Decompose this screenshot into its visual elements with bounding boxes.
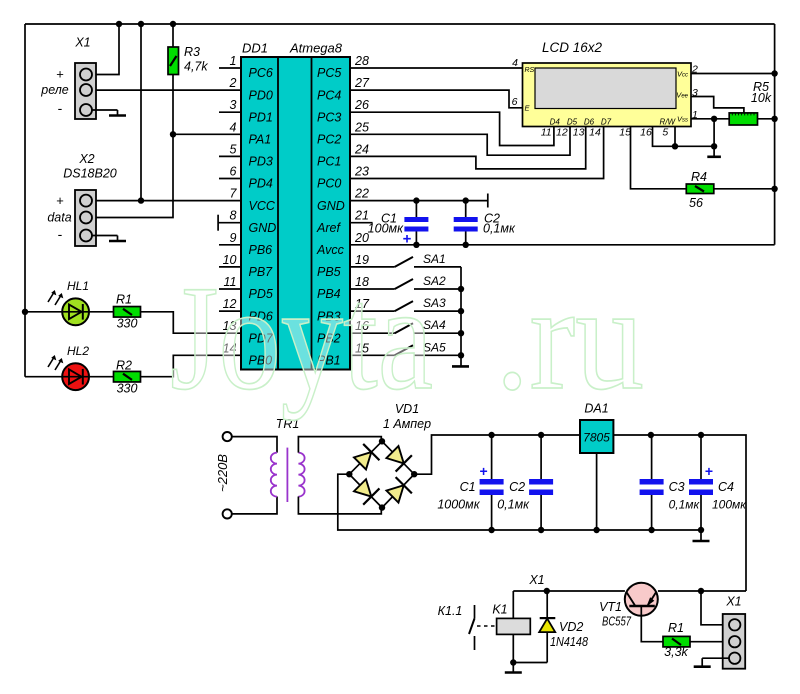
wire DD1 pin10 stub	[219, 266, 241, 268]
svg-text:16: 16	[640, 127, 652, 139]
wire R2 to DD1 pin14 PB0	[140, 355, 241, 376]
junction bridge bottom	[379, 504, 385, 510]
svg-text:5: 5	[662, 127, 668, 139]
wire DD1 pin21 Aref stub	[350, 222, 373, 224]
svg-text:13: 13	[573, 127, 585, 139]
svg-text:R2: R2	[116, 359, 132, 373]
junction bridge left	[346, 471, 352, 477]
diode VD2 1N4148	[546, 632, 548, 662]
wire left bus vertical (top rail to HL2)	[24, 24, 26, 377]
junction top rail C1p	[488, 432, 494, 438]
capacitor C4 100мк	[700, 435, 702, 479]
op-amp U1 microcontroller DD1 ATmega8 body	[241, 57, 350, 370]
HL1 emission arrows	[48, 292, 55, 303]
wire X2 data up to node	[92, 134, 173, 217]
junction Avcc wire / C1	[413, 242, 419, 248]
wire DD1 pin1 stub	[219, 67, 241, 69]
wire LCD pin15 to R4	[631, 127, 687, 189]
svg-text:HL2: HL2	[67, 344, 89, 358]
svg-text:4: 4	[512, 57, 518, 69]
ground X2	[117, 236, 119, 242]
junction SA bus	[458, 286, 464, 292]
svg-text:25: 25	[354, 120, 369, 134]
wire X1 pin2 to DD1 pin2 PD0	[92, 89, 241, 91]
svg-text:Aref: Aref	[316, 221, 341, 235]
junction top rail / X1 pin1	[116, 21, 122, 27]
svg-text:6: 6	[512, 96, 518, 108]
ground power rail	[700, 530, 702, 541]
transformer TR1 primary wire	[232, 437, 277, 453]
svg-text:27: 27	[354, 76, 370, 90]
svg-text:-: -	[58, 100, 63, 116]
svg-text:PC1: PC1	[317, 155, 341, 169]
svg-text:330: 330	[117, 317, 138, 331]
svg-text:3,3k: 3,3k	[664, 645, 688, 659]
svg-text:-: -	[58, 226, 63, 242]
wire R4 to right bus	[714, 188, 775, 190]
svg-text:RS: RS	[525, 67, 535, 74]
ground X1 output	[701, 658, 703, 667]
capacitor C1 1000мк	[491, 435, 493, 479]
diode VD1a	[352, 444, 380, 472]
svg-text:330: 330	[117, 382, 138, 396]
junction top rail / R3	[170, 21, 176, 27]
svg-text:BC557: BC557	[602, 614, 632, 629]
svg-text:C3: C3	[669, 480, 685, 494]
svg-text:+: +	[56, 67, 64, 82]
svg-text:100мк: 100мк	[368, 222, 404, 236]
junction Avcc wire / C2	[463, 242, 469, 248]
ground X1	[117, 110, 119, 116]
svg-text:PA1: PA1	[249, 133, 272, 147]
wire DD1 pin24 PC1 to LCD D6 pin13	[350, 127, 586, 169]
junction Vss wire	[711, 116, 717, 122]
svg-text:DS18B20: DS18B20	[63, 167, 117, 181]
HL2 emission arrows	[48, 357, 55, 368]
svg-text:R1: R1	[116, 293, 132, 307]
wire X2 plus to DD1 pin7 VCC	[92, 200, 241, 202]
wire X1 pin1 feed	[701, 591, 729, 625]
svg-text:R4: R4	[691, 170, 707, 184]
junction X2 plus / VCC	[138, 197, 144, 203]
svg-text:+: +	[56, 193, 64, 208]
wire LCD Vcc pin2 to right bus	[691, 73, 775, 75]
svg-text:X1: X1	[528, 573, 544, 587]
svg-text:22: 22	[354, 187, 369, 201]
junction VD2 top	[544, 588, 550, 594]
svg-text:PC4: PC4	[317, 88, 341, 102]
svg-text:C2: C2	[509, 480, 525, 494]
svg-text:1000мк: 1000мк	[437, 498, 480, 512]
diode VD1b	[384, 444, 412, 472]
svg-text:PC0: PC0	[317, 177, 341, 191]
svg-text:реле: реле	[40, 83, 69, 97]
wire DD1 pin11 stub	[219, 288, 241, 290]
wire DD1 pin27 PC4 to LCD E pin6	[350, 90, 523, 108]
svg-text:D6: D6	[584, 118, 595, 127]
svg-text:PC3: PC3	[317, 110, 341, 124]
wire X1 pin3 to ground	[92, 109, 118, 111]
resistor R1 3.3k	[663, 636, 690, 647]
wire VT1 base to R1	[641, 606, 663, 642]
wire HL1 anode from left bus	[25, 311, 62, 313]
wire VD2 bottom link	[513, 662, 547, 664]
svg-text:21: 21	[354, 209, 369, 223]
switch SA4	[350, 332, 395, 334]
relay K1 coil	[497, 618, 531, 634]
wire power rail DA1 out	[613, 435, 746, 591]
ground K1	[512, 663, 514, 673]
wire R1 to X1 pin2	[690, 641, 729, 643]
wire relay K1 top lead	[512, 591, 514, 618]
svg-text:10k: 10k	[751, 91, 772, 105]
LED HL1 green	[62, 298, 89, 325]
wire Vss to LCD ground node	[713, 119, 715, 147]
svg-text:15: 15	[619, 127, 631, 139]
svg-text:8: 8	[230, 209, 237, 223]
wire DD1 pin3 stub	[219, 111, 241, 113]
svg-text:5: 5	[230, 142, 237, 156]
svg-text:2: 2	[229, 76, 237, 90]
wire DD1 pin8 GND stub with tick	[218, 222, 241, 224]
capacitor C1 plates	[404, 217, 428, 222]
diode VD1d	[384, 477, 412, 505]
svg-text:D7: D7	[601, 118, 612, 127]
svg-text:+: +	[705, 463, 713, 479]
svg-text:PD1: PD1	[249, 110, 273, 124]
wire X2 pin3 to ground	[92, 235, 118, 237]
svg-text:Atmega8: Atmega8	[289, 41, 343, 56]
capacitor C1 100mk leads	[415, 201, 417, 217]
diode VD1c	[352, 477, 380, 505]
wire DD1 pin26 PC3 to LCD D4 pin11	[350, 112, 554, 145]
junction left bus / HL1	[22, 309, 28, 315]
wire R3 bottom to data node	[172, 75, 174, 135]
svg-text:PD3: PD3	[249, 155, 273, 169]
svg-text:9: 9	[230, 231, 237, 245]
svg-text:R3: R3	[184, 45, 200, 59]
svg-text:R/W: R/W	[659, 118, 676, 127]
svg-text:+: +	[403, 231, 412, 248]
resistor R3 4.7k pull-up	[168, 47, 179, 75]
wire right +5V bus vertical	[774, 24, 776, 245]
svg-text:14: 14	[589, 127, 601, 139]
svg-text:VD2: VD2	[559, 620, 583, 634]
junction SA bus	[458, 352, 464, 358]
wire +V emitter rail	[513, 590, 625, 592]
svg-text:7805: 7805	[583, 431, 610, 445]
svg-text:PC5: PC5	[317, 66, 341, 80]
wire LCD Vee pin3 to R5 wiper	[691, 97, 744, 113]
junction top rail C4	[698, 432, 704, 438]
transistor VT1 BC557	[625, 583, 658, 616]
junction bottom rail C3	[648, 527, 654, 533]
switch SA1	[350, 266, 395, 268]
LCD 16x2 module	[523, 63, 692, 127]
junction GND wire / C2	[463, 197, 469, 203]
svg-text:R1: R1	[668, 621, 684, 635]
switch SA3	[350, 310, 395, 312]
resistor R1 330	[114, 307, 141, 318]
svg-text:6: 6	[230, 165, 237, 179]
svg-text:data: data	[47, 211, 71, 225]
svg-text:Joyta: Joyta	[170, 255, 433, 421]
junction SA bus	[458, 330, 464, 336]
wire LCD Vss pin1 to R5	[691, 118, 729, 120]
svg-text:VCC: VCC	[249, 199, 276, 213]
resistor R4 56	[686, 184, 714, 194]
svg-text:PC2: PC2	[317, 133, 341, 147]
wire DD1 pin20 Avcc to right bus	[350, 244, 775, 246]
wire R3 top to rail	[172, 24, 174, 47]
wire top rail down to X2 plus	[140, 24, 142, 201]
wire LCD pin16 and pin5 to ground node	[653, 127, 715, 147]
switch SA2	[350, 288, 395, 290]
potentiometer R5 10k	[729, 113, 757, 125]
wire node to DD1 pin4 PA1	[173, 133, 241, 135]
wire DD1 pin25 PC2 to LCD D5 pin12	[350, 127, 570, 156]
wire DD1 pin12 stub	[219, 310, 241, 312]
transformer TR1 primary winding	[271, 453, 277, 497]
svg-text:0,1мк: 0,1мк	[669, 498, 701, 512]
capacitor C2 0,1мк	[540, 435, 542, 479]
capacitor C3 0,1мк	[651, 435, 653, 479]
svg-text:GND: GND	[249, 221, 277, 235]
junction right bus / R4	[771, 186, 777, 192]
junction LCD ground node	[711, 143, 717, 149]
wire HL2 cathode to R2	[89, 376, 114, 378]
wire DA1 ground lead	[596, 453, 598, 530]
wire X1 pin3 to ground	[702, 657, 729, 659]
ground LCD	[713, 146, 715, 157]
wire DD1 pin28 PC5 to LCD RS pin4	[350, 67, 523, 69]
junction X1 output pin1	[698, 588, 704, 594]
svg-text:X1: X1	[725, 595, 741, 609]
LED HL2 red	[62, 363, 89, 390]
junction right bus / LCD Vcc	[771, 70, 777, 76]
svg-text:0,1мк: 0,1мк	[483, 222, 516, 236]
wire bridge minus to bottom rail	[338, 474, 701, 530]
junction K1 / VD2 bottom	[510, 659, 516, 665]
svg-text:28: 28	[354, 54, 369, 68]
svg-text:4,7k: 4,7k	[184, 60, 208, 74]
svg-text:4: 4	[230, 120, 237, 134]
wire bridge plus to top power rail	[414, 435, 580, 474]
junction SA bus	[458, 308, 464, 314]
svg-text:PD0: PD0	[249, 88, 273, 102]
svg-text:0,1мк: 0,1мк	[497, 498, 530, 512]
junction bridge right	[411, 471, 417, 477]
junction GND wire / C1	[413, 197, 419, 203]
svg-text:26: 26	[354, 98, 369, 112]
svg-text:3: 3	[230, 98, 237, 112]
connector X1 relay output	[75, 63, 96, 119]
transformer TR1 secondary wires	[298, 437, 381, 453]
junction bottom rail C4	[698, 527, 704, 533]
svg-text:.ru: .ru	[495, 255, 644, 421]
junction bottom rail C2p	[538, 527, 544, 533]
wire DD1 pin22 GND to C1 C2 with end tick	[350, 200, 488, 202]
svg-text:23: 23	[354, 165, 369, 179]
junction top rail C2p	[538, 432, 544, 438]
transformer TR1 core	[286, 448, 288, 502]
capacitor C2 0.1mk leads	[465, 201, 467, 217]
transformer TR1 secondary winding	[298, 453, 304, 497]
svg-text:1: 1	[230, 54, 237, 68]
wire HL2 anode from left bus	[25, 376, 62, 378]
wire HL1 cathode to R1	[89, 311, 114, 313]
diode bridge VD1 diamond	[349, 441, 414, 507]
connector mains input bottom	[223, 509, 232, 518]
junction right bus / R5	[771, 116, 777, 122]
junction bottom rail DA1 gnd	[593, 527, 599, 533]
svg-text:LCD 16x2: LCD 16x2	[542, 40, 603, 55]
wire SA common bus	[460, 267, 462, 367]
junction top rail / X2 plus	[138, 21, 144, 27]
connector X1 output	[723, 614, 746, 669]
wire DD1 pin23 PC0 to LCD D7 pin14	[350, 127, 604, 179]
junction R3 / data / PA1	[170, 131, 176, 137]
svg-text:PC6: PC6	[249, 66, 273, 80]
wire relay K1 bottom lead	[512, 634, 514, 662]
svg-text:C1: C1	[460, 480, 476, 494]
svg-text:D5: D5	[567, 118, 578, 127]
connector X2 DS18B20	[75, 190, 96, 246]
svg-text:PD4: PD4	[249, 177, 273, 191]
junction top rail C3	[648, 432, 654, 438]
svg-text:12: 12	[556, 127, 568, 139]
svg-text:1N4148: 1N4148	[550, 634, 589, 649]
ground SA bus	[452, 365, 469, 368]
svg-text:GND: GND	[317, 199, 345, 213]
svg-text:11: 11	[541, 127, 552, 139]
svg-text:X1: X1	[74, 36, 90, 50]
svg-text:K1: K1	[492, 603, 507, 617]
resistor R2 330	[114, 371, 141, 382]
wire +5V top rail	[25, 23, 775, 25]
connector mains input top	[223, 432, 232, 441]
wire R1 to DD1 pin13 PD7	[140, 312, 241, 333]
svg-text:HL1: HL1	[67, 279, 89, 293]
switch SA5	[350, 354, 395, 356]
svg-text:56: 56	[689, 196, 703, 210]
svg-text:20: 20	[354, 231, 369, 245]
svg-text:DD1: DD1	[242, 41, 268, 56]
capacitor C2 plates	[454, 217, 478, 222]
svg-text:C4: C4	[718, 480, 734, 494]
svg-text:24: 24	[354, 142, 369, 156]
junction bottom rail C1p	[488, 527, 494, 533]
wire DD1 pin5 stub	[219, 155, 241, 157]
junction pin5 / ground wire	[672, 143, 678, 149]
svg-text:X2: X2	[78, 152, 94, 166]
wire DD1 pin9 stub	[219, 244, 241, 246]
wire DD1 pin6 stub	[219, 178, 241, 180]
svg-text:100мк: 100мк	[712, 498, 747, 512]
wire R5 right to bus	[758, 118, 775, 120]
svg-text:7: 7	[230, 187, 238, 201]
svg-text:VT1: VT1	[599, 600, 622, 614]
voltage regulator DA1 7805	[580, 420, 613, 453]
junction bridge top	[379, 438, 385, 444]
svg-text:+: +	[480, 463, 488, 479]
svg-text:К1.1: К1.1	[438, 604, 463, 618]
wire X1 pin1 to top rail	[92, 24, 119, 75]
svg-text:D4: D4	[550, 118, 561, 127]
svg-text:~220В: ~220В	[215, 454, 230, 492]
